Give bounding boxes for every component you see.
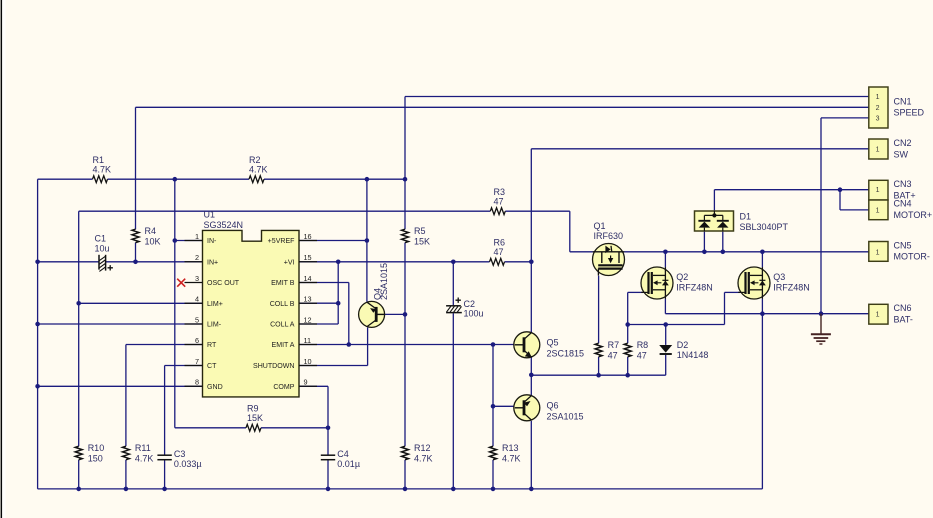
ground symbol — [811, 314, 831, 344]
wire: R10 bottom lead — [78, 460, 80, 489]
junction Q4 base/divider — [403, 312, 408, 317]
wire: IN- / R9 column — [174, 179, 176, 428]
wire: R3 to Q1 drain — [569, 211, 571, 252]
svg-text:IRFZ48N: IRFZ48N — [773, 283, 810, 293]
junction CN3/CN4 tie — [838, 187, 843, 192]
U1 pin stubs and names — [185, 240, 203, 242]
svg-text:4.7K: 4.7K — [414, 453, 433, 463]
svg-text:5: 5 — [195, 315, 199, 324]
wire: C2 top lead — [452, 262, 454, 305]
wire: BAT+ net D1 to CN3 — [714, 189, 868, 191]
wire: source / BAT- net — [665, 313, 868, 315]
junction +VI/C2 — [451, 260, 456, 265]
transistor Q1 IRF630 (rotated MOSFET) — [593, 244, 625, 276]
junction R1/R2 node — [173, 177, 178, 182]
svg-text:15K: 15K — [247, 413, 263, 423]
svg-text:R8: R8 — [637, 340, 649, 350]
resistor R11 4.7K — [122, 446, 129, 460]
svg-text:0.033µ: 0.033µ — [174, 459, 202, 469]
wire: R12 bottom lead — [404, 460, 406, 489]
wire: CN1 pin1 net from R5 column — [405, 96, 869, 98]
junction EMIT A/Q5 base/R13 — [491, 342, 496, 347]
wire: CN3-CN4 tie — [839, 190, 841, 210]
wire: Q6 collector down to bus — [530, 421, 532, 489]
svg-text:D2: D2 — [677, 340, 689, 350]
junction R2 line/R5 column — [403, 177, 408, 182]
wire: driver output line — [531, 374, 665, 376]
wire: R4 bottom lead — [135, 243, 137, 262]
junction GND bus/C4 — [326, 487, 331, 492]
wire: R11 column — [125, 345, 127, 447]
transistor Q3 IRFZ48N — [738, 267, 770, 299]
sheet border left edge — [1, 0, 3, 518]
wire: IN- pin1 line — [175, 240, 203, 242]
svg-text:R9: R9 — [247, 404, 259, 414]
svg-text:16: 16 — [304, 232, 312, 241]
svg-text:COMP: COMP — [273, 384, 294, 391]
svg-text:EMIT B: EMIT B — [271, 280, 295, 287]
wire: SHUTDOWN pin10 line — [299, 365, 368, 367]
wire: R13 bottom lead — [492, 460, 494, 489]
svg-text:13: 13 — [304, 295, 312, 304]
wire: CT pin7 line — [165, 365, 203, 367]
svg-text:47: 47 — [494, 197, 504, 207]
svg-text:R7: R7 — [608, 340, 620, 350]
no-connect X on pin 3 — [177, 279, 185, 287]
svg-text:SG3524N: SG3524N — [204, 220, 244, 230]
svg-text:MOTOR+: MOTOR+ — [894, 210, 933, 220]
resistor R13 4.7K — [490, 446, 497, 460]
wire: IN+ line with C1 — [38, 261, 99, 263]
wire: GND pin8 line — [38, 385, 203, 387]
svg-text:0.01µ: 0.01µ — [337, 459, 360, 469]
wire: EMIT A pin11 line to Q5 base — [299, 344, 514, 346]
svg-text:CN5: CN5 — [894, 240, 912, 250]
svg-text:R10: R10 — [88, 443, 105, 453]
svg-text:Q2: Q2 — [676, 272, 688, 282]
svg-text:2SC1815: 2SC1815 — [547, 348, 585, 358]
junction Q2/Q3 source node — [760, 311, 765, 316]
svg-text:SW: SW — [894, 150, 909, 160]
junction GND bus/C2 — [451, 487, 456, 492]
junction R7 bottom — [596, 373, 601, 378]
connector CN1 SPEED — [869, 87, 888, 128]
wire: D1 right anode lead — [722, 231, 724, 252]
op-amp U1 SG3524N body — [203, 230, 300, 397]
junction Q6 base/R13 column — [491, 404, 496, 409]
wire: Q2 gate lead — [628, 291, 644, 293]
svg-text:R11: R11 — [135, 443, 151, 453]
svg-text:1: 1 — [876, 187, 880, 194]
junction GND bus/R11 — [124, 487, 129, 492]
svg-text:IRF630: IRF630 — [594, 231, 624, 241]
junction Q3 drain/MOTOR- bus — [760, 250, 765, 255]
wire: to CN4 — [840, 209, 869, 211]
svg-text:3: 3 — [876, 115, 880, 122]
connector CN6 BAT- — [869, 304, 888, 324]
svg-text:SPEED: SPEED — [894, 108, 925, 118]
svg-text:14: 14 — [304, 274, 312, 283]
junction GND bus/R10 — [76, 487, 81, 492]
svg-text:+VI: +VI — [284, 259, 295, 266]
wire: +5VREF column to Q4 emitter — [366, 179, 368, 301]
wire: Q5 emitter to Q6 emitter — [530, 357, 532, 396]
svg-text:C2: C2 — [464, 299, 476, 309]
diode D2 1N4148 — [659, 345, 672, 353]
capacitor C4 0.01u — [321, 454, 335, 456]
junction GND bus/GND pin line — [35, 384, 40, 389]
svg-text:GND: GND — [207, 384, 223, 391]
wire: gate bus — [628, 324, 725, 326]
wire: R9 feedback line — [175, 427, 246, 429]
wire: R8 bottom lead — [627, 357, 629, 375]
transistor Q6 2SA1015 — [514, 395, 540, 421]
svg-text:2SA1015: 2SA1015 — [379, 263, 389, 300]
junction GND bus/R12 — [403, 487, 408, 492]
svg-text:10: 10 — [304, 357, 312, 366]
svg-text:RT: RT — [207, 342, 217, 349]
connector CN4 MOTOR+ — [869, 200, 888, 220]
svg-text:3: 3 — [195, 274, 199, 283]
svg-text:CN3: CN3 — [894, 179, 912, 189]
svg-text:4.7K: 4.7K — [502, 453, 521, 463]
svg-text:R13: R13 — [502, 443, 519, 453]
svg-text:12: 12 — [304, 315, 312, 324]
transistor Q4 2SA1015 (mirrored PNP, base right) — [359, 301, 385, 327]
wire: COMP pin9 line — [299, 385, 328, 387]
wire: RT pin6 line — [126, 344, 203, 346]
junction Q5/Q6 emitters — [529, 373, 534, 378]
wire: +5VREF pin16 line — [299, 240, 367, 242]
svg-text:LIM+: LIM+ — [207, 301, 223, 308]
svg-text:9: 9 — [304, 378, 308, 387]
resistor R8 47 — [624, 343, 631, 357]
resistor R5 15K — [402, 229, 409, 243]
wire: D2 bottom lead — [665, 355, 667, 375]
svg-text:10K: 10K — [145, 236, 161, 246]
wire: D1 top lead — [713, 190, 715, 212]
junction GND bus/LIM- line — [35, 322, 40, 327]
junction D1 right anode — [721, 250, 726, 255]
wire: Q5/Q6 base tie / R13 column — [492, 345, 494, 447]
svg-text:CT: CT — [207, 363, 217, 370]
capacitor C2 100u electrolytic — [446, 305, 461, 307]
wire: CN1 pin2 net from R4 top (speed wiper) — [136, 106, 869, 108]
svg-text:OSC OUT: OSC OUT — [207, 280, 240, 287]
junction GND bus/R13 — [491, 487, 496, 492]
svg-text:15K: 15K — [414, 236, 430, 246]
svg-text:LIM-: LIM- — [207, 322, 222, 329]
svg-text:47: 47 — [608, 350, 618, 360]
svg-text:COLL A: COLL A — [270, 322, 295, 329]
svg-text:R12: R12 — [414, 443, 431, 453]
svg-text:1N4148: 1N4148 — [677, 350, 709, 360]
resistor R9 15K — [246, 424, 261, 431]
wire: left GND bus — [37, 179, 39, 489]
wire: R4 column upper — [135, 107, 137, 229]
wire: Q2 source lead — [664, 299, 666, 314]
wire: Q4 base to divider — [385, 313, 405, 315]
svg-text:R4: R4 — [145, 226, 157, 236]
wire: Q4 collector to SHUTDOWN — [367, 328, 369, 366]
svg-text:CN1: CN1 — [894, 96, 912, 106]
svg-text:BAT-: BAT- — [894, 314, 913, 324]
svg-text:IRFZ48N: IRFZ48N — [676, 283, 713, 293]
wire: Q2 drain lead — [664, 252, 666, 267]
resistor R7 47 — [595, 343, 602, 357]
junction IN- pin/R9 column — [173, 238, 178, 243]
wire: Q3 gate riser — [724, 292, 726, 324]
svg-text:SBL3040PT: SBL3040PT — [740, 222, 789, 232]
junction EMIT B/EMIT A tie — [347, 342, 352, 347]
junction GND bus/Q6 collector — [529, 487, 534, 492]
wire: +VI line with R6 — [299, 261, 490, 263]
wire: R5 column upper — [404, 97, 406, 230]
junction R8 bottom — [625, 373, 630, 378]
svg-text:Q6: Q6 — [547, 401, 559, 411]
wire: Q1 gate to R7 — [598, 276, 600, 344]
wire: C3 bottom lead — [164, 460, 166, 489]
svg-text:R1: R1 — [93, 155, 105, 165]
svg-text:CN4: CN4 — [894, 199, 912, 209]
svg-text:R6: R6 — [494, 238, 506, 248]
resistor R1 4.7K — [93, 176, 108, 183]
svg-text:1: 1 — [876, 146, 880, 153]
svg-text:1: 1 — [876, 94, 880, 101]
wire: LIM+ pin4 line — [79, 302, 203, 304]
wire: CN1 pin3 ground stub — [821, 117, 869, 119]
wire: COLL B pin13 line — [299, 302, 338, 304]
svg-text:100u: 100u — [464, 309, 484, 319]
svg-text:4.7K: 4.7K — [93, 165, 112, 175]
wire: COLL A/B tie to +VI — [337, 262, 339, 324]
junction Q2 gate/R8 — [625, 322, 630, 327]
svg-text:CN2: CN2 — [894, 138, 912, 148]
junction GND bus/C1 — [35, 260, 40, 265]
svg-text:R5: R5 — [414, 226, 426, 236]
junction R9/COMP/C4 — [326, 426, 331, 431]
svg-text:SHUTDOWN: SHUTDOWN — [253, 363, 295, 370]
wire: EMIT B tie down to EMIT A — [348, 283, 350, 345]
wire: COLL A pin12 line — [299, 323, 338, 325]
capacitor C3 0.033u — [157, 454, 171, 456]
svg-text:2: 2 — [195, 253, 199, 262]
wire: C4 bottom lead — [327, 460, 329, 489]
wire: C2 bottom lead — [452, 313, 454, 489]
transistor Q2 IRFZ48N — [641, 267, 673, 299]
wire: Q6 base line — [493, 405, 514, 407]
wire: D1 left anode lead — [703, 231, 705, 252]
wire: CN2 SW net — [531, 148, 869, 150]
svg-text:R3: R3 — [494, 187, 506, 197]
junction +VI/COLL tie — [336, 260, 341, 265]
junction R6/SW column — [529, 260, 534, 265]
diode D1 SBL3040PT dual schottky — [695, 211, 734, 231]
svg-text:10u: 10u — [95, 244, 110, 254]
svg-text:COLL B: COLL B — [270, 301, 295, 308]
svg-text:C4: C4 — [337, 449, 349, 459]
svg-text:IN+: IN+ — [207, 259, 218, 266]
wire: R11 bottom lead — [125, 460, 127, 489]
wire: Q3 source / bus riser — [761, 299, 763, 489]
wire: D2 top lead — [665, 325, 667, 345]
wire: R10 column — [78, 211, 80, 446]
svg-text:150: 150 — [88, 453, 103, 463]
connector CN5 MOTOR- — [869, 242, 888, 262]
svg-text:EMIT A: EMIT A — [272, 342, 295, 349]
junction GND bus/C3 — [162, 487, 167, 492]
svg-text:C1: C1 — [95, 234, 107, 244]
junction LIM+/R10 column — [76, 301, 81, 306]
wire: Q3 drain lead — [761, 252, 763, 267]
wire: R3 current sense line — [79, 210, 491, 212]
svg-text:4.7K: 4.7K — [135, 453, 154, 463]
svg-text:IN-: IN- — [207, 238, 217, 245]
svg-text:+5VREF: +5VREF — [268, 238, 296, 245]
junction COLL B tie — [336, 301, 341, 306]
resistor R4 10K — [132, 229, 139, 243]
svg-text:4: 4 — [195, 295, 199, 304]
resistor R6 47 — [490, 258, 505, 265]
transistor Q5 2SC1815 — [514, 332, 540, 358]
svg-text:1: 1 — [876, 312, 880, 319]
wire: Q3 gate lead — [725, 291, 741, 293]
svg-text:D1: D1 — [740, 212, 752, 222]
svg-text:U1: U1 — [204, 210, 216, 220]
resistor R3 47 — [490, 208, 505, 215]
svg-text:C3: C3 — [174, 449, 186, 459]
svg-text:4.7K: 4.7K — [249, 165, 268, 175]
junction BAT- / ground — [819, 311, 824, 316]
svg-text:Q3: Q3 — [773, 272, 785, 282]
junction gate bus/D2 — [663, 322, 668, 327]
wire: bottom GND bus — [38, 488, 763, 490]
svg-text:MOTOR-: MOTOR- — [894, 252, 930, 262]
capacitor C1 10u electrolytic — [98, 255, 100, 270]
wire: LIM- pin5 line — [38, 323, 203, 325]
wire: R1-R2 top net — [38, 178, 93, 180]
svg-text:Q5: Q5 — [547, 338, 559, 348]
junction +5VREF pin/column — [365, 238, 370, 243]
wire: Q2 gate / R8 column — [627, 292, 629, 343]
svg-text:2: 2 — [876, 105, 880, 112]
wire: COMP / C4 column — [327, 386, 329, 455]
svg-text:47: 47 — [637, 350, 647, 360]
svg-text:6: 6 — [195, 336, 199, 345]
wire: MOTOR- drain bus — [570, 251, 593, 253]
wire: vertical SW / R6 / Q5 collector column — [530, 149, 532, 334]
svg-text:11: 11 — [304, 336, 312, 345]
svg-text:1: 1 — [876, 249, 880, 256]
svg-text:1: 1 — [876, 207, 880, 214]
wire: R5/R12 column middle — [404, 243, 406, 447]
connector CN3 BAT+ — [869, 180, 888, 200]
resistor R10 150 — [75, 446, 82, 460]
wire: R7 bottom lead — [598, 357, 600, 375]
svg-text:7: 7 — [195, 357, 199, 366]
junction R2/+5VREF column — [365, 177, 370, 182]
connector CN2 SW — [869, 139, 888, 159]
wire: EMIT B pin14 line — [299, 282, 349, 284]
wire: vertical CN1 pin3 to ground net — [820, 118, 822, 314]
svg-text:47: 47 — [494, 247, 504, 257]
resistor R12 4.7K — [402, 446, 409, 460]
svg-text:CN6: CN6 — [894, 303, 912, 313]
junction R4/IN+ line — [133, 260, 138, 265]
wire: C3 column — [164, 366, 166, 455]
svg-text:15: 15 — [304, 253, 312, 262]
svg-text:2SA1015: 2SA1015 — [547, 411, 584, 421]
svg-text:1: 1 — [195, 232, 199, 241]
svg-text:8: 8 — [195, 378, 199, 387]
svg-text:R2: R2 — [249, 155, 261, 165]
junction D1 left anode — [702, 250, 707, 255]
svg-text:Q1: Q1 — [594, 221, 606, 231]
resistor R2 4.7K — [249, 176, 264, 183]
junction Q2 drain/MOTOR- bus — [663, 250, 668, 255]
